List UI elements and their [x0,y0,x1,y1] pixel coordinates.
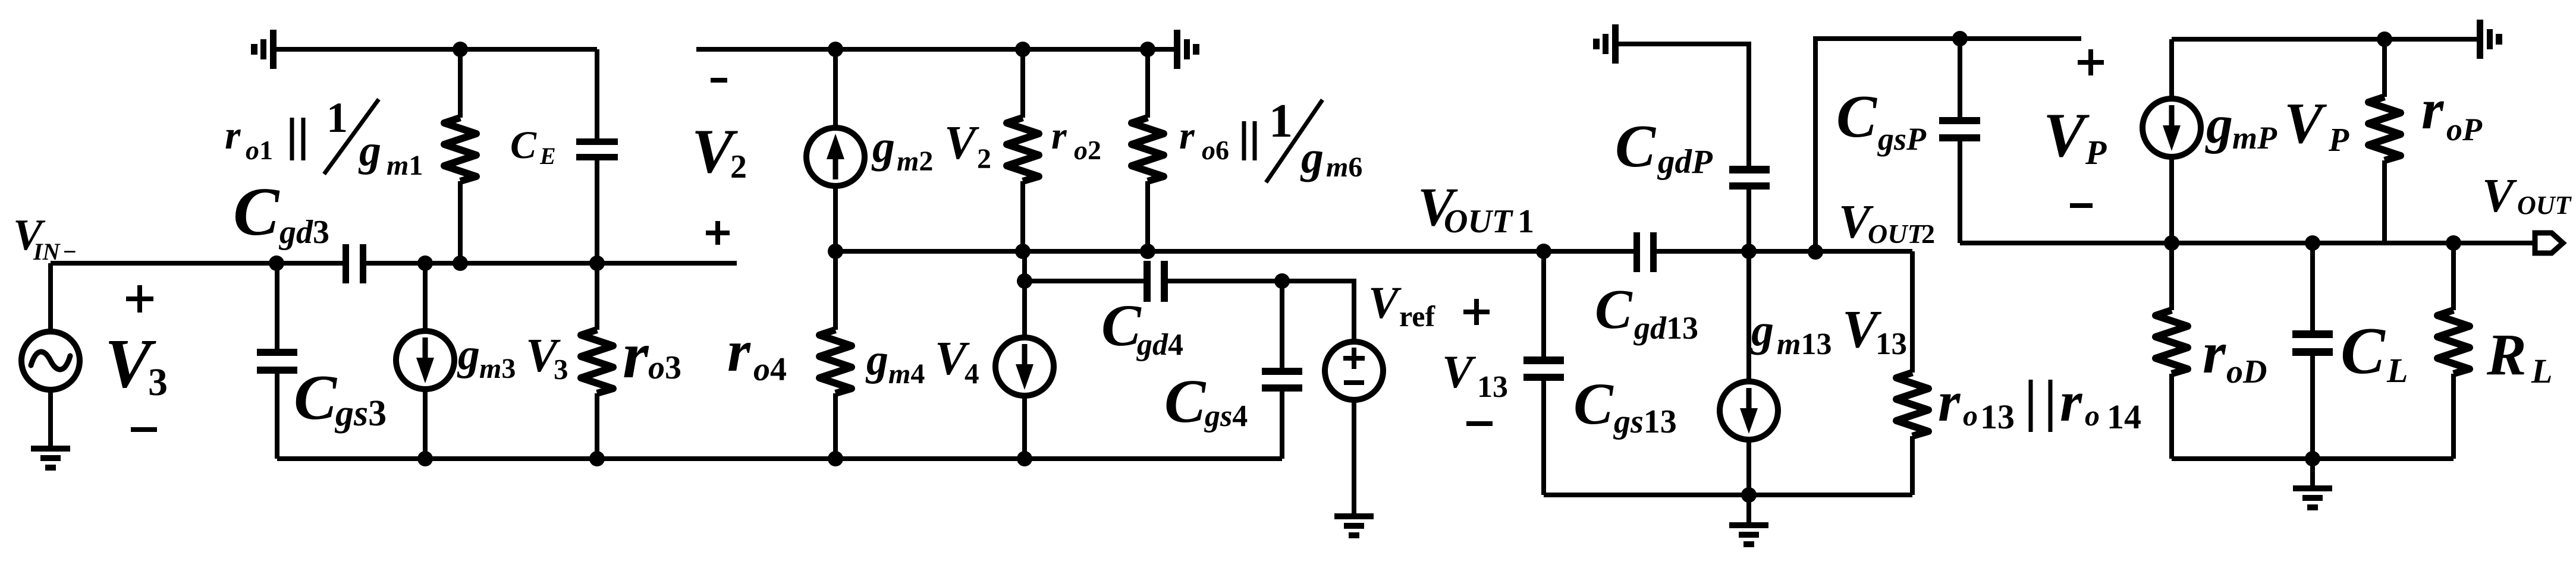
svg-text:r: r [1938,370,1961,433]
wire top rail stage 4 [2172,37,2477,42]
svg-text:m4: m4 [888,358,925,390]
svg-text:L: L [2531,352,2552,390]
node dot Cgs4 top [1274,273,1290,289]
svg-text:V: V [2043,100,2090,170]
svg-text:3: 3 [554,353,568,386]
wire CgdP top [1619,44,1749,166]
svg-text:r: r [1179,114,1195,157]
svg-text:m3: m3 [479,353,516,384]
ground top-left stage 1 [251,30,277,69]
node dot roP top [2377,31,2392,47]
svg-text:V: V [944,117,979,169]
svg-text:IN: IN [33,238,61,265]
wire bottom rail stages 1-2 [277,456,1282,461]
svg-text:g: g [457,330,480,379]
capacitor CgsP [1958,39,1962,243]
wire output row [1960,241,2534,245]
svg-text:13: 13 [1980,397,2015,436]
svg-text:r: r [1051,114,1067,157]
capacitor Cgs4 [1280,281,1284,459]
node dot CgsP top [1952,31,1968,46]
svg-text:r: r [225,112,241,157]
ground below gm13 [1746,495,1751,522]
node dot ro2 top [1015,42,1031,57]
svg-text:g: g [2205,96,2233,154]
svg-text:r: r [727,318,751,384]
plus V2 [706,221,730,245]
svg-text:g: g [358,127,381,175]
svg-text:C: C [1164,367,1207,436]
svg-text:13: 13 [1477,370,1508,404]
ground top-right stage 2 [1174,30,1199,69]
node dot ro6 bottom [1140,244,1155,259]
svg-text:C: C [510,124,537,167]
svg-text:4: 4 [965,357,979,390]
svg-text:2: 2 [730,149,747,185]
svg-text:r: r [623,318,649,392]
ground below V3 [31,446,70,471]
svg-text:m1: m1 [387,150,423,181]
svg-text:gs4: gs4 [1204,399,1248,433]
svg-text:gs13: gs13 [1613,403,1677,440]
minus V3 [131,427,157,432]
ground below CL [2310,459,2315,485]
node dot gm3 top [417,255,433,271]
ground top stage 3 [1593,24,1619,64]
svg-text:o: o [2085,399,2100,432]
svg-text:C: C [294,362,338,433]
resistor ro2 [1020,49,1025,251]
svg-text:14: 14 [2107,397,2141,436]
svg-text:3: 3 [148,361,168,404]
svg-text:r: r [2060,370,2083,433]
svg-text:−: − [63,238,77,265]
capacitor CgdP [1729,166,1770,173]
current source gm3V3 [423,263,428,459]
svg-text:gdP: gdP [1657,143,1713,181]
svg-text:2: 2 [977,143,991,175]
capacitor Cgd4 series [1144,261,1151,302]
node dot gm3 bottom [417,451,433,466]
svg-text:m2: m2 [897,146,933,177]
wire stage 3 bottom [1544,493,1912,497]
svg-text:1: 1 [1269,95,1293,147]
svg-text:C: C [1615,113,1656,180]
wire top rail stage 1 [277,47,597,52]
node dot CL bottom [2305,451,2320,466]
wire stage 4 bottom [2172,456,2454,461]
svg-text:C: C [1101,292,1142,358]
node dot ro3 top [589,255,605,271]
svg-text:V: V [2482,170,2517,222]
svg-text:C: C [1573,371,1614,437]
ground below Vref [1334,513,1374,538]
plus VP [2078,49,2104,75]
resistor ro3 [595,263,599,459]
svg-text:V: V [1442,346,1477,397]
wire gate row stage 2 [1025,281,1354,342]
svg-text:R: R [2486,321,2527,387]
resistor RL [2451,243,2456,459]
capacitor Cgs13 [1541,251,1546,495]
svg-text:1: 1 [326,94,348,141]
svg-text:m6: m6 [1326,152,1362,183]
node dot V_OUT1 [1536,244,1551,259]
node dot ro1 top [453,42,468,57]
svg-text:1: 1 [1518,203,1534,240]
svg-text:V: V [2284,91,2327,156]
wire main to ro13 [1910,251,1915,495]
svg-text:o1: o1 [246,135,273,165]
resistor ro6 || 1/gm6 [1145,49,1150,251]
svg-text:o: o [1963,399,1978,432]
current source gmPVP [2169,39,2174,243]
svg-text:L: L [2386,351,2408,390]
capacitor Cgd13 series [1633,232,1640,272]
resistor roD [2169,243,2174,459]
output terminal arrow [2535,233,2563,253]
svg-text:g: g [1750,305,1774,355]
svg-text:oD: oD [2226,354,2267,390]
svg-text:oP: oP [2446,112,2483,147]
svg-text:C: C [1595,279,1633,340]
minus V2 [711,78,727,83]
node dot V_OUT2 [1808,244,1823,260]
current source gm13V13 [1746,251,1751,495]
svg-text:gd4: gd4 [1136,328,1183,362]
svg-text:2: 2 [1921,219,1935,249]
node dot RL top [2446,235,2461,251]
node dot ro6 top [1140,42,1155,57]
svg-text:g: g [865,336,888,384]
svg-text:P: P [2328,122,2349,159]
svg-text:V: V [1368,278,1402,328]
minus V13 [1466,421,1493,426]
svg-text:C: C [233,174,280,250]
ground top-right stage 4 [2477,20,2502,59]
node dot ro3 bottom [589,451,605,466]
svg-text:ref: ref [1399,299,1435,333]
capacitor CL [2310,243,2315,459]
node dot gm13 bottom [1741,487,1757,503]
svg-text:E: E [539,143,556,169]
node dot ro2 bottom [1015,244,1031,259]
svg-text:C: C [1836,83,1877,150]
svg-text:o4: o4 [753,351,787,388]
voltage source V3 [48,263,53,446]
resistor ro4 [833,251,838,459]
capacitor CE [595,49,599,263]
svg-text:r: r [2203,320,2226,386]
svg-text:o6: o6 [1202,135,1229,165]
node dot gm2 top [828,42,843,57]
svg-text:mP: mP [2232,120,2277,156]
svg-text:gsP: gsP [1877,121,1927,157]
plus V13 [1463,299,1490,325]
node dot gmP bottom [2164,235,2179,251]
node dot gm4 bottom [1017,451,1032,466]
wire main V_IN- row [51,261,737,266]
node dot gm2 bottom [828,244,843,259]
node dot gm4 gate row [1017,273,1032,289]
svg-text:g: g [1300,132,1324,182]
svg-text:13: 13 [1876,327,1907,361]
source Vref [1325,342,1383,400]
current source gm2V2 [833,49,838,251]
resistor ro1 || 1/gm1 [458,49,463,263]
capacitor Cgs3 [275,263,279,459]
node dot ro1 bottom [453,255,468,271]
resistor roP [2382,39,2387,243]
node dot CgdP bottom [1741,244,1757,259]
plus V3 [126,285,153,313]
wire top rail stage 2 [696,47,1174,52]
wire main stage 2-3 [835,249,1912,254]
svg-text:P: P [2085,133,2107,172]
svg-text:gs3: gs3 [334,393,387,434]
svg-text:o3: o3 [648,349,681,386]
svg-text:OUT: OUT [1444,203,1514,240]
node dot CL top [2305,235,2320,251]
svg-text:o2: o2 [1074,135,1101,165]
svg-text:OUT: OUT [2517,191,2572,220]
current source gm4V4 [1022,251,1027,459]
svg-text:OUT: OUT [1868,219,1925,249]
svg-text:r: r [2421,77,2445,141]
svg-text:gd13: gd13 [1633,310,1698,346]
node dot Cgs3 top [269,255,284,271]
svg-text:C: C [2341,314,2386,388]
resistor ro13 || ro14 [1896,373,1928,436]
node dot ro4 bottom [828,451,843,466]
svg-text:g: g [871,122,895,172]
capacitor Cgd3 series [343,244,349,283]
wire V_OUT2 riser [1815,39,2081,252]
svg-text:m13: m13 [1777,327,1832,361]
minus VP [2070,203,2093,208]
svg-text:gd3: gd3 [278,214,329,251]
